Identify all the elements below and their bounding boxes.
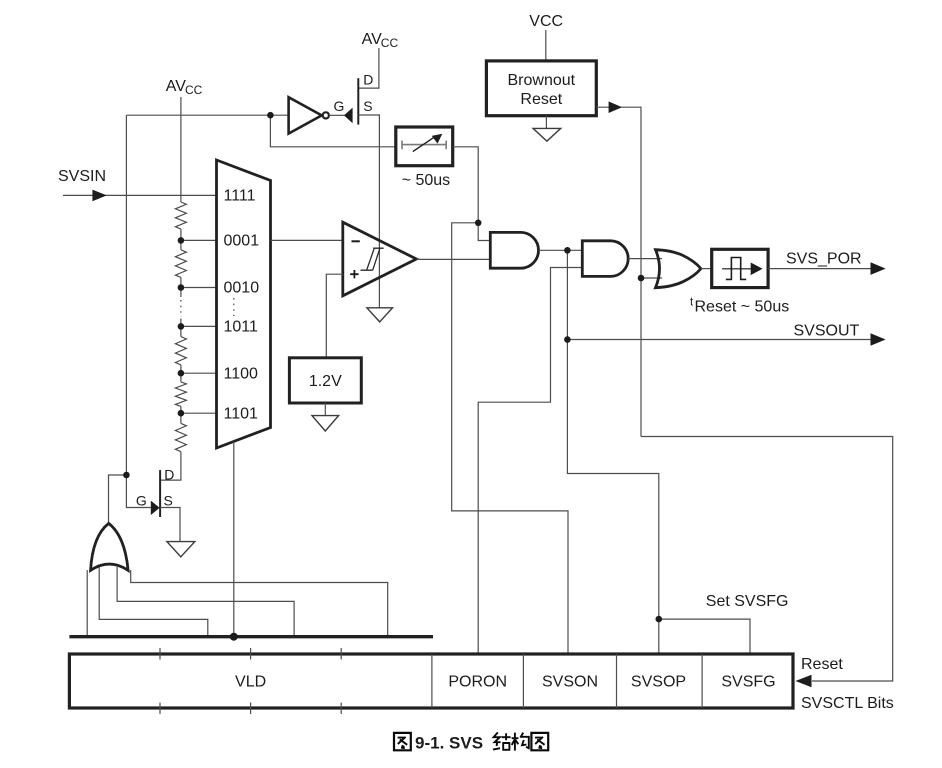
- transistor Q1 gate arrow: [344, 108, 353, 124]
- svg-text:AV: AV: [362, 31, 382, 48]
- wire node to SVSON bit (left drop): [452, 223, 568, 654]
- caption glyph TU (figure): [394, 733, 411, 750]
- svg-text:G: G: [334, 98, 345, 114]
- svg-text:CC: CC: [381, 36, 399, 50]
- node tap junction dots: [178, 237, 185, 416]
- wire mux select from bus: [233, 441, 235, 636]
- SVS_POR arrowhead: [871, 262, 886, 275]
- svg-text:SVSON: SVSON: [542, 674, 598, 691]
- svg-text:Reset: Reset: [520, 91, 562, 108]
- pulse symbol baseline: [722, 268, 751, 270]
- svg-text:SVSFG: SVSFG: [721, 674, 775, 691]
- brownout reset box: [486, 61, 596, 116]
- svg-text:Set SVSFG: Set SVSFG: [706, 593, 789, 610]
- SVSOUT arrowhead: [871, 333, 886, 346]
- multiplexer MUX (VLD tap select): [217, 160, 271, 448]
- wire AND1 output node down to SVSOUT and SVSFG: [567, 250, 658, 654]
- wire brownout to ground: [545, 116, 547, 129]
- node junction dot (SVSOUT tap): [564, 336, 571, 343]
- wire brownout output to reset rail: [596, 107, 641, 436]
- wire OR2 input 3 to bus: [117, 567, 294, 637]
- VLD bus line: [69, 635, 433, 638]
- resistor R4: [175, 382, 186, 407]
- node junction dot (OR1 lower input): [638, 275, 645, 282]
- svg-text:VLD: VLD: [235, 674, 266, 691]
- wire top horizontal to inverter input: [126, 114, 288, 116]
- caption glyph JIE: [493, 732, 511, 749]
- node junction dot (AND1 out): [564, 247, 571, 254]
- node junction dot (inverter input tap): [267, 112, 274, 119]
- svg-text:1111: 1111: [224, 187, 256, 204]
- comparator hysteresis symbol: [361, 248, 384, 270]
- caption glyph GOU: [512, 733, 529, 751]
- delay filter box ~50us: [396, 127, 453, 166]
- wire OR1 output to pulse box: [701, 268, 712, 270]
- delay filter tick line: [402, 141, 446, 150]
- wire tap 1011: [181, 325, 216, 327]
- svg-text:1101: 1101: [224, 405, 259, 422]
- wire R1-R2: [180, 229, 182, 250]
- svg-text:9-1. SVS: 9-1. SVS: [415, 734, 483, 753]
- resistor R2: [175, 250, 186, 278]
- register separator SVSOP|SVSFG: [701, 654, 703, 708]
- svg-text:0001: 0001: [224, 233, 260, 250]
- resistor R1: [175, 202, 186, 229]
- pulse symbol arrowhead: [751, 263, 763, 276]
- wire Q1 source down to ground (crosses comparator): [358, 115, 379, 308]
- wire 1.2V to ground: [324, 403, 326, 416]
- node junction dot (mux select on bus): [230, 633, 238, 641]
- svg-text:D: D: [363, 72, 373, 88]
- svg-text:Reset ~ 50us: Reset ~ 50us: [695, 299, 790, 316]
- svg-text:CC: CC: [185, 83, 203, 97]
- OR gate U6 (VLD decode): [91, 523, 129, 570]
- comparator plus sign: [350, 270, 358, 278]
- svg-text:SVS_POR: SVS_POR: [786, 251, 862, 268]
- wire VCC to brownout box: [545, 30, 547, 61]
- svg-text:D: D: [164, 467, 174, 483]
- ground below comparator: [367, 308, 393, 322]
- svg-text:PORON: PORON: [448, 674, 507, 691]
- wire SVSIN arrowhead: [92, 190, 106, 202]
- wire AVCC down to transistor Q1 drain: [358, 48, 379, 88]
- comparator U2: [343, 222, 417, 296]
- ground below Q2: [167, 542, 195, 557]
- svg-text:Brownout: Brownout: [508, 72, 576, 89]
- wire junction to delay filter input: [270, 115, 396, 147]
- transistor Q2 channel bar: [159, 470, 161, 517]
- resistor R5: [175, 423, 186, 451]
- svg-text:S: S: [164, 493, 173, 509]
- wire R2 to tap 0010: [180, 277, 182, 297]
- node junction dot (rail/OR2): [123, 472, 130, 479]
- wire AND2 output to OR1: [628, 258, 662, 260]
- svg-text:Reset: Reset: [801, 656, 843, 673]
- wire tap 0010: [181, 287, 216, 289]
- wire reset rail to register (Reset input): [641, 437, 893, 682]
- node AVCC (top middle): [362, 31, 399, 50]
- wire Set SVSFG to SVSFG bit: [659, 619, 750, 654]
- transistor Q2 gate arrow: [151, 501, 160, 515]
- OR gate U5: [656, 250, 701, 288]
- svg-text:VCC: VCC: [529, 13, 563, 30]
- wire to tap 1011: [180, 319, 182, 337]
- wire OR2 input 1 to bus: [86, 570, 88, 637]
- wire tap 1100: [181, 372, 216, 374]
- inverter U1: [289, 97, 322, 133]
- wire mux output to comparator minus: [271, 239, 343, 241]
- wire SVS_POR output: [768, 268, 872, 270]
- wire R3-R4: [180, 365, 182, 382]
- register VLD bit tick 1: [159, 648, 161, 714]
- wire delay filter output down to node: [453, 147, 479, 223]
- node AVCC (left): [166, 78, 203, 97]
- svg-text:1.2V: 1.2V: [309, 373, 342, 390]
- reset arrowhead into register: [796, 675, 812, 688]
- svg-text:SVSOP: SVSOP: [631, 674, 686, 691]
- mux ellipsis: [233, 298, 235, 316]
- resistor R3: [175, 337, 186, 365]
- ground below brownout: [533, 128, 561, 141]
- wire OR2 input 4 to bus: [131, 570, 388, 637]
- svg-text:S: S: [363, 98, 372, 114]
- svg-text:~ 50us: ~ 50us: [402, 172, 450, 189]
- pulse generator box tReset: [712, 249, 768, 287]
- ground below 1.2V: [312, 416, 339, 431]
- wire reset rail to OR1 lower input: [641, 277, 662, 279]
- wire comparator plus to 1.2V reference: [326, 274, 343, 358]
- reference box 1.2V: [289, 358, 361, 403]
- comparator minus sign: [352, 240, 360, 242]
- wire rail down to Q2 gate: [126, 475, 150, 508]
- svg-text:1011: 1011: [224, 319, 259, 336]
- svg-text:t: t: [690, 297, 694, 309]
- register separator SVSON|SVSOP: [616, 654, 618, 708]
- wire AND1 output to AND2: [539, 249, 583, 251]
- wire SVSOUT output: [567, 339, 872, 341]
- wire Q2 source to ground: [160, 508, 180, 542]
- AND gate U3: [490, 232, 538, 268]
- svg-text:AV: AV: [166, 78, 186, 95]
- wire OR2 input 2 to bus: [99, 567, 208, 637]
- svg-text:SVSIN: SVSIN: [58, 168, 106, 185]
- node junction dot (Set SVSFG): [656, 616, 663, 623]
- node junction dot (delay/AND1): [475, 220, 482, 227]
- register VLD bit tick 2: [250, 648, 252, 714]
- wire ladder ellipsis: [180, 300, 182, 317]
- wire tap 1101: [181, 412, 216, 414]
- caption glyph TU2 (figure): [531, 733, 548, 750]
- svg-text:G: G: [136, 493, 147, 509]
- wire AVCC left rail down to resistor ladder: [180, 97, 182, 202]
- register VLD bit tick 3: [340, 648, 342, 714]
- delay filter diagonal arrow: [413, 137, 434, 151]
- wire node to AND1 top input: [478, 223, 490, 241]
- register box SVSCTL: [69, 654, 793, 708]
- svg-text:SVSCTL Bits: SVSCTL Bits: [801, 695, 894, 712]
- delay filter arrowhead: [432, 134, 443, 144]
- brownout output arrowhead: [609, 101, 622, 113]
- register separator PORON|SVSON: [522, 654, 524, 708]
- inverter U1 bubble: [323, 112, 329, 118]
- wire tap 0001: [181, 239, 216, 241]
- AND gate U4: [582, 241, 628, 277]
- wire left rail: [125, 115, 127, 475]
- wire R5 to Q2 drain: [161, 452, 181, 480]
- wire SVSIN input: [63, 194, 216, 196]
- wire comparator output to AND1: [416, 258, 490, 260]
- wire rail to OR2 output node: [109, 475, 127, 524]
- wire PORON bit to AND2 lower input: [478, 268, 582, 655]
- svg-text:0010: 0010: [224, 280, 260, 297]
- register separator VLD|PORON: [431, 654, 433, 708]
- pulse symbol waveform: [726, 258, 746, 280]
- svg-text:1100: 1100: [224, 365, 259, 382]
- wire R4-R5: [180, 406, 182, 423]
- label tReset ~ 50us: [690, 297, 789, 316]
- transistor Q1 channel bar: [357, 78, 359, 124]
- svg-text:SVSOUT: SVSOUT: [794, 323, 860, 340]
- wire inverter output to Q1 gate: [329, 114, 345, 116]
